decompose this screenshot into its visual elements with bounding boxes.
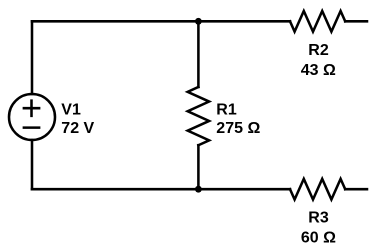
resistor R2 zigzag — [290, 11, 345, 32]
svg-text:43 Ω: 43 Ω — [301, 62, 336, 79]
svg-text:60 Ω: 60 Ω — [301, 230, 336, 246]
wire top-left vertical — [31, 21, 34, 94]
V1 minus sign — [24, 126, 39, 129]
wire top horizontal — [32, 20, 290, 23]
node junction dot top — [195, 18, 202, 25]
svg-text:275 Ω: 275 Ω — [216, 120, 260, 137]
svg-text:V1: V1 — [61, 102, 81, 119]
wire R2 right lead — [345, 20, 367, 23]
wire R3 right lead — [345, 188, 367, 191]
wire bottom horizontal — [32, 188, 290, 191]
wire bottom-left vertical — [31, 140, 34, 189]
V1 plus sign — [24, 101, 39, 116]
svg-text:R1: R1 — [216, 102, 237, 119]
voltage source V1 circle — [9, 94, 55, 140]
node junction dot bottom — [195, 186, 202, 193]
svg-text:R3: R3 — [308, 210, 329, 227]
wire middle vertical bottom — [197, 145, 200, 189]
svg-text:R2: R2 — [308, 42, 329, 59]
wire middle vertical top — [197, 21, 200, 87]
resistor R1 zigzag — [188, 87, 209, 145]
svg-text:72 V: 72 V — [61, 120, 94, 137]
resistor R3 zigzag — [290, 179, 345, 200]
